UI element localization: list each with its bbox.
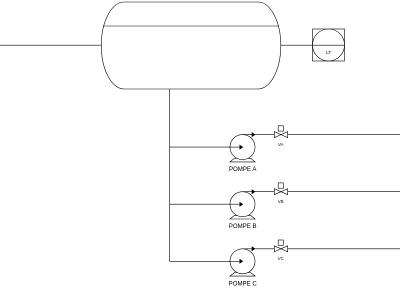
vessel V1 <box>101 2 280 89</box>
instrument LT circle <box>313 29 345 61</box>
svg-text:VB: VB <box>278 199 284 204</box>
svg-text:POMPE B: POMPE B <box>229 223 257 230</box>
svg-text:LT: LT <box>326 50 331 56</box>
pump P-C base <box>230 273 255 277</box>
wire pump A outlet <box>243 134 400 136</box>
wire branch C to pump <box>170 260 243 262</box>
wire through LT <box>313 44 345 46</box>
vessel seam line <box>103 25 279 27</box>
valve VC body <box>274 246 287 252</box>
arrow pump A outlet <box>252 132 256 137</box>
wire branch A to pump <box>170 146 243 148</box>
wire vessel to LT <box>281 44 313 46</box>
arrow pump C outlet <box>252 246 256 251</box>
svg-text:POMPE A: POMPE A <box>229 166 257 173</box>
svg-text:VA: VA <box>278 142 284 147</box>
pump P-C circle <box>230 249 255 274</box>
svg-text:POMPE C: POMPE C <box>229 280 258 287</box>
arrow into pump B (over circle) <box>229 202 243 207</box>
wire pump B outlet <box>243 191 400 193</box>
pump P-A circle <box>230 135 255 160</box>
pump P-A base <box>230 158 255 162</box>
arrow into pump C (over circle) <box>229 259 243 264</box>
instrument LT square <box>313 29 345 61</box>
wire inlet to vessel <box>0 44 102 46</box>
valve VB actuator <box>278 183 283 188</box>
wire branch B to pump <box>170 203 243 205</box>
wire pump C outlet <box>243 248 400 250</box>
valve VC actuator <box>278 240 283 245</box>
valve VB body <box>274 189 287 195</box>
arrow pump B outlet <box>252 189 256 194</box>
pump P-B base <box>230 215 255 219</box>
arrow into pump A (over circle) <box>229 145 243 150</box>
valve VA body <box>274 132 287 138</box>
svg-text:VC: VC <box>278 256 284 261</box>
pump P-B circle <box>230 192 255 217</box>
wire vessel bottom drop <box>169 89 171 261</box>
valve VA actuator <box>278 126 283 131</box>
